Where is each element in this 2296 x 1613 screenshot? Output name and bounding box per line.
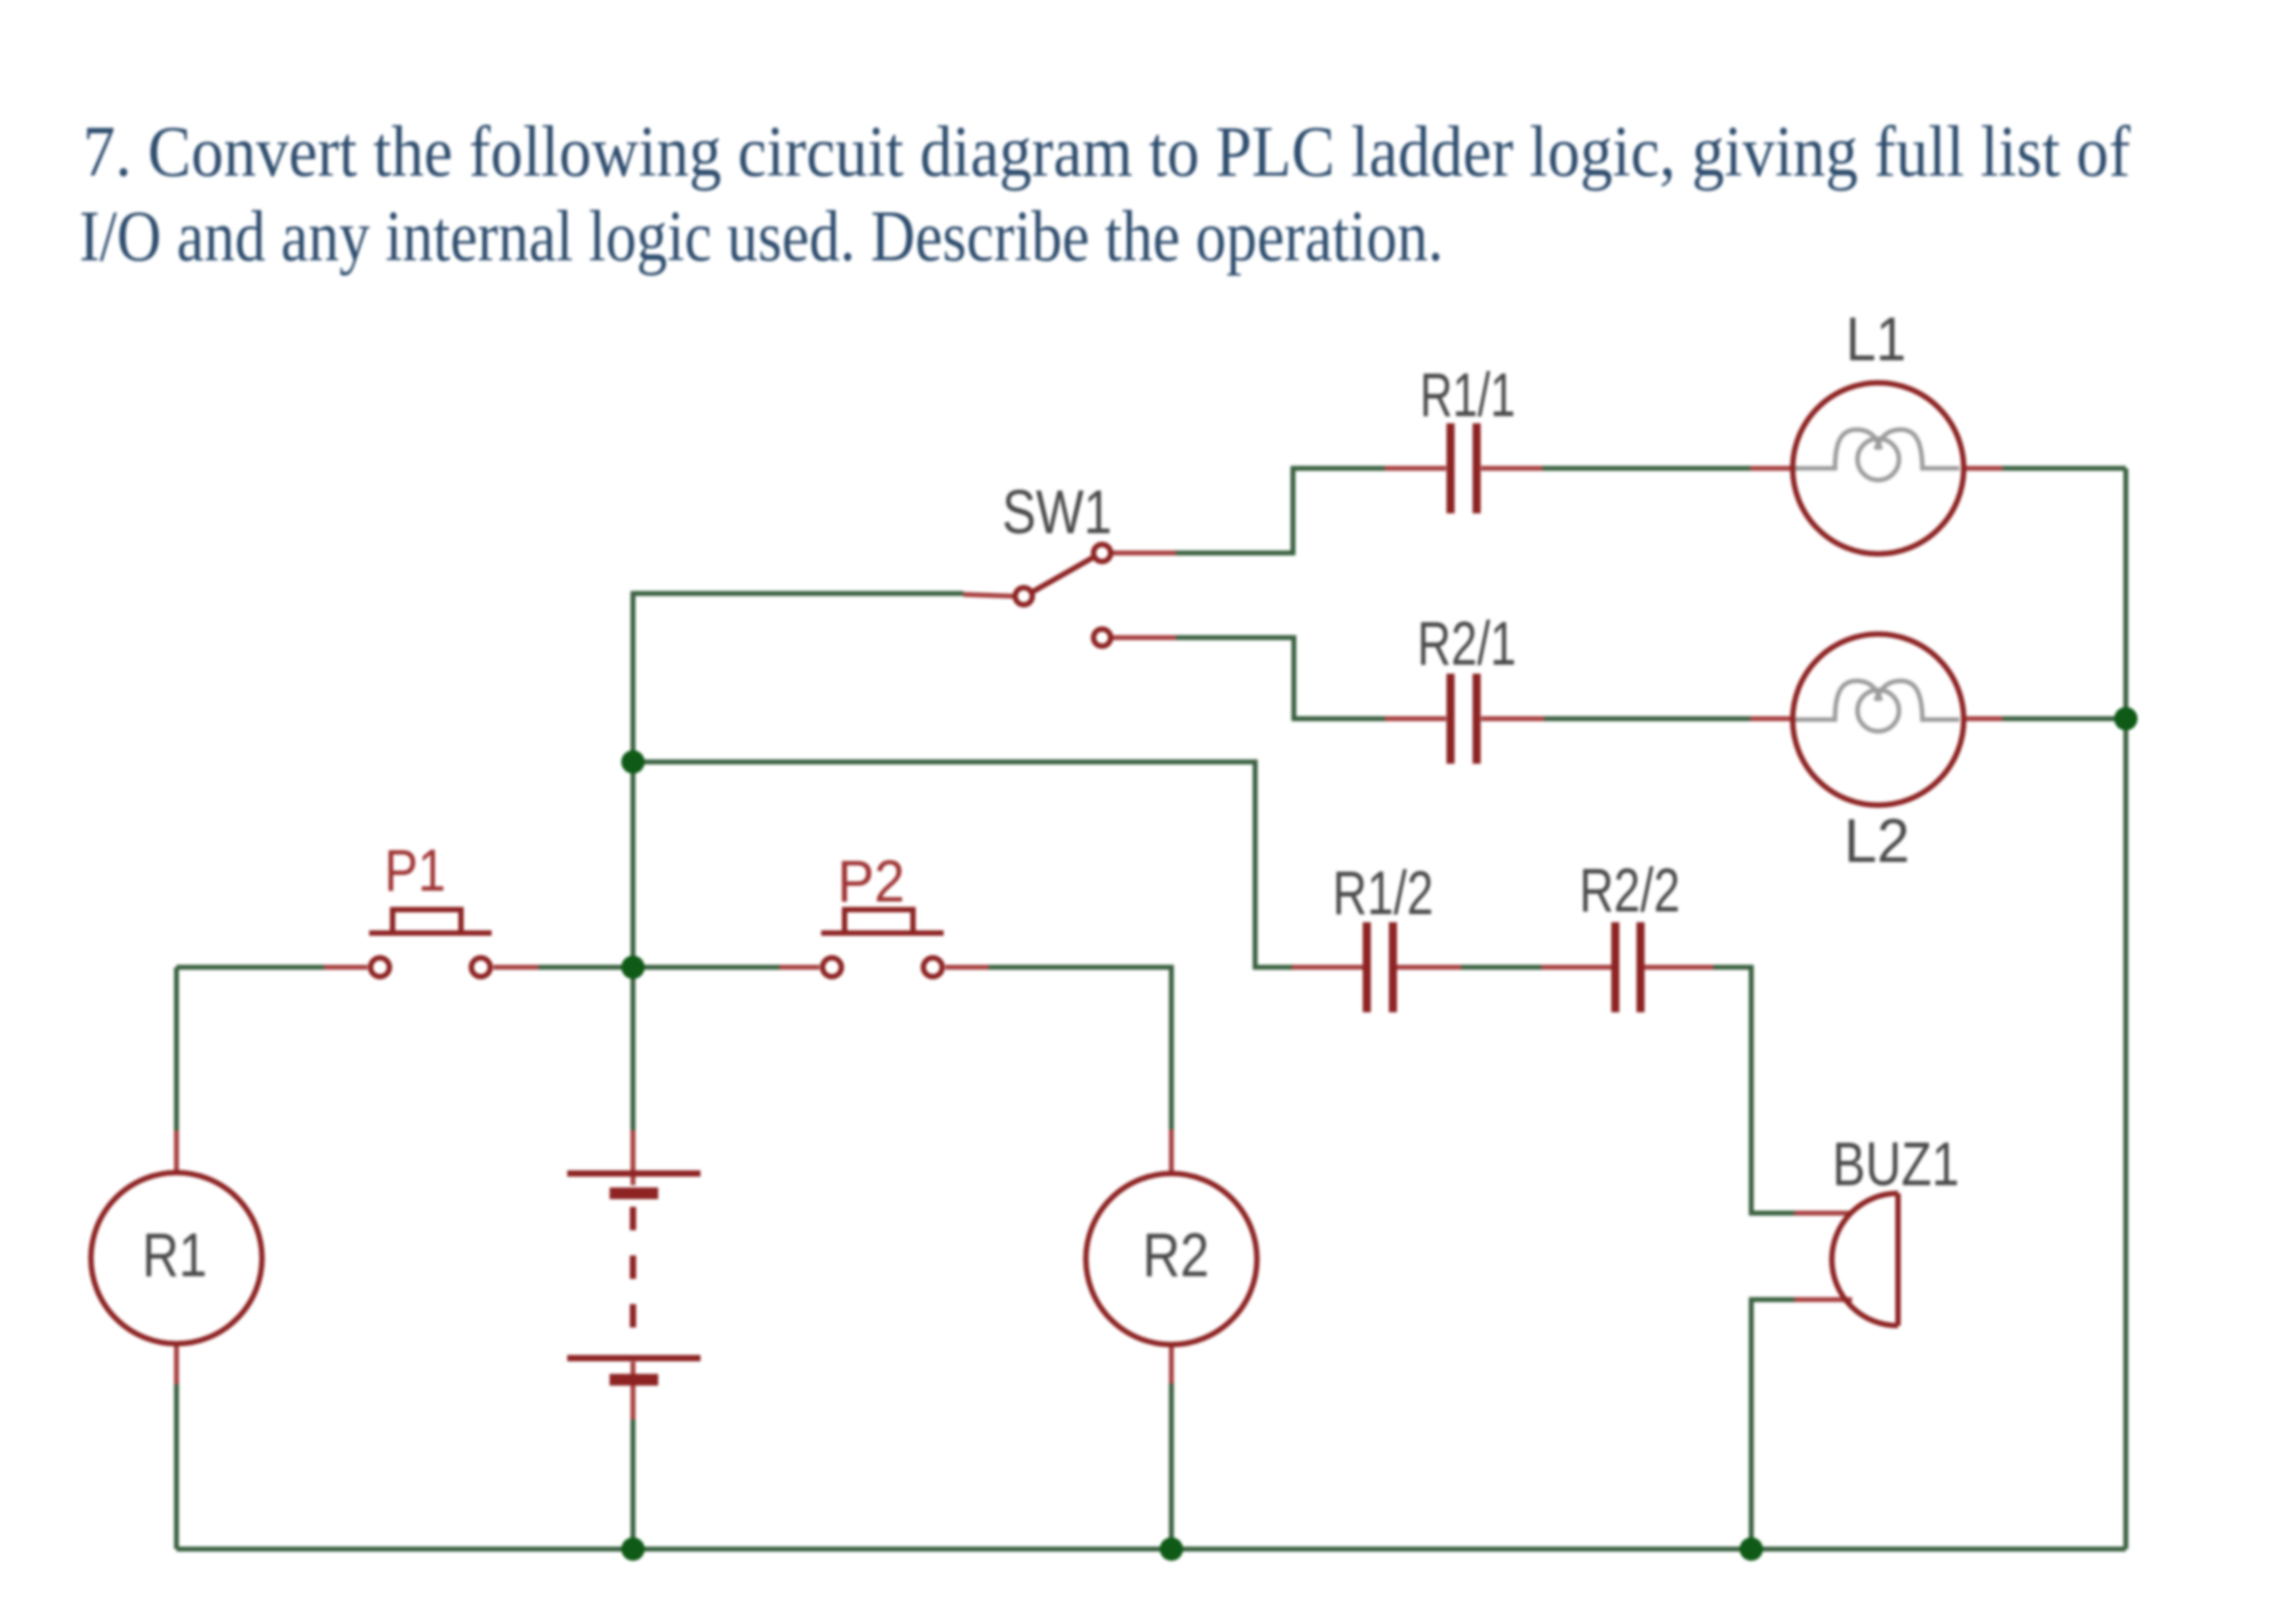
lamp L1 [1793,383,1964,554]
junction node at SW1 branch [621,750,645,774]
wire: battery column upper [630,762,636,1130]
wire: SW1 pole feed from battery column [633,594,963,762]
wire: P1 to junction [538,965,780,970]
wire: R2/2 to buzzer column [1713,967,1794,1213]
lead: R1 coil bottom [174,1343,179,1384]
wire: P2 to R2 column [989,967,1171,1129]
svg-text:7. Convert the following circu: 7. Convert the following circuit diagram… [83,113,2130,192]
svg-text:BUZ1: BUZ1 [1832,1129,1959,1199]
contact R1/1 [1451,423,1477,513]
lead: L1 right [1962,466,2002,471]
wire: buzzer bottom to bottom rail [1751,1300,1794,1549]
svg-text:P1: P1 [384,837,446,903]
lead: BUZ1 bottom [1794,1297,1852,1302]
wire: contact row between R1/2 and R2/2 [1461,965,1541,970]
svg-text:R2/1: R2/1 [1417,609,1516,678]
lead: R2/1 left [1385,716,1446,721]
contact R2/1 [1451,674,1477,764]
lead: L2 left [1750,716,1794,721]
wire: battery column lower [630,1419,636,1549]
lead: R2/1 right [1481,716,1544,721]
switch SW1 [1016,545,1111,647]
wire: left rail lower [174,1384,179,1549]
pushbutton P1 [369,910,492,977]
lead: P2 left [780,965,819,970]
wire: SW1 throw1 to R1/1 row [1176,468,1385,553]
lead: SW1 pole red stub [963,594,1014,596]
lead: R1/1 right [1481,466,1542,471]
wire: L1 to right rail [2002,466,2126,471]
lead: SW1 throw1 red stub [1113,550,1176,556]
svg-text:R1: R1 [142,1220,207,1290]
wire: left rail upper [174,967,179,1130]
lead: P1 right [493,965,538,970]
lead: R1/2 left [1292,965,1363,970]
lead: BUZ1 top [1794,1210,1852,1216]
relay coil R1 [91,1173,262,1344]
lead: L2 right [1962,716,2002,721]
lead: battery top [630,1130,636,1185]
wire: R1/1 to L1 [1542,466,1750,471]
svg-text:R1/2: R1/2 [1333,858,1433,928]
contact R1/2 [1367,922,1393,1012]
wire: SW1 throw2 to R2/1 row [1176,638,1385,719]
pushbutton P2 [821,910,944,977]
battery cell 2 short plate [610,1374,658,1386]
junction node main row / battery [621,956,645,979]
lead: P2 right [945,965,989,970]
wire: second horizontal row to contact branch [633,762,1294,967]
junction node L2 right rail [2114,707,2138,730]
svg-text:L2: L2 [1844,806,1910,875]
lead: R1 coil top [174,1130,179,1174]
battery cell 2 long plate [567,1355,701,1362]
battery cell 1 long plate [567,1171,701,1177]
wire: L2 to right rail [2002,716,2126,721]
buzzer BUZ1 [1831,1193,1898,1326]
lead: L1 left [1750,466,1794,471]
svg-text:R1/1: R1/1 [1420,360,1515,430]
lead: R1/1 left [1385,466,1446,471]
wire: R2 column lower [1169,1383,1174,1549]
lead: battery bottom [630,1362,636,1419]
lead: P1 left [324,965,367,970]
lead: SW1 throw2 red stub [1113,635,1176,640]
battery cell 1 short plate [610,1188,658,1200]
junction node buzzer bottom [1740,1537,1763,1561]
wire: main row left rail to P1 [176,965,324,970]
lead: R1/2 right [1397,965,1461,970]
battery dashed link [630,1207,637,1353]
svg-text:L1: L1 [1846,304,1906,374]
svg-text:R2: R2 [1143,1220,1209,1290]
lead: R2 coil top [1169,1129,1174,1174]
lead: R2/2 left [1541,965,1612,970]
junction node R2 bottom [1160,1537,1183,1561]
relay coil R2 [1086,1174,1257,1345]
svg-text:SW1: SW1 [1002,477,1112,547]
wire: R2/1 to L2 [1544,716,1750,721]
svg-text:R2/2: R2/2 [1579,856,1680,925]
wire: bottom rail [176,1546,2126,1552]
lead: R2 coil bottom [1169,1345,1174,1383]
contact R2/2 [1615,922,1641,1012]
svg-text:I/O and any internal logic use: I/O and any internal logic used. Describ… [79,197,1443,276]
lead: R2/2 right [1644,965,1713,970]
wire: right rail [2123,468,2129,1549]
junction node battery bottom [621,1537,645,1561]
svg-text:P2: P2 [837,847,905,914]
lamp L2 [1793,634,1964,805]
